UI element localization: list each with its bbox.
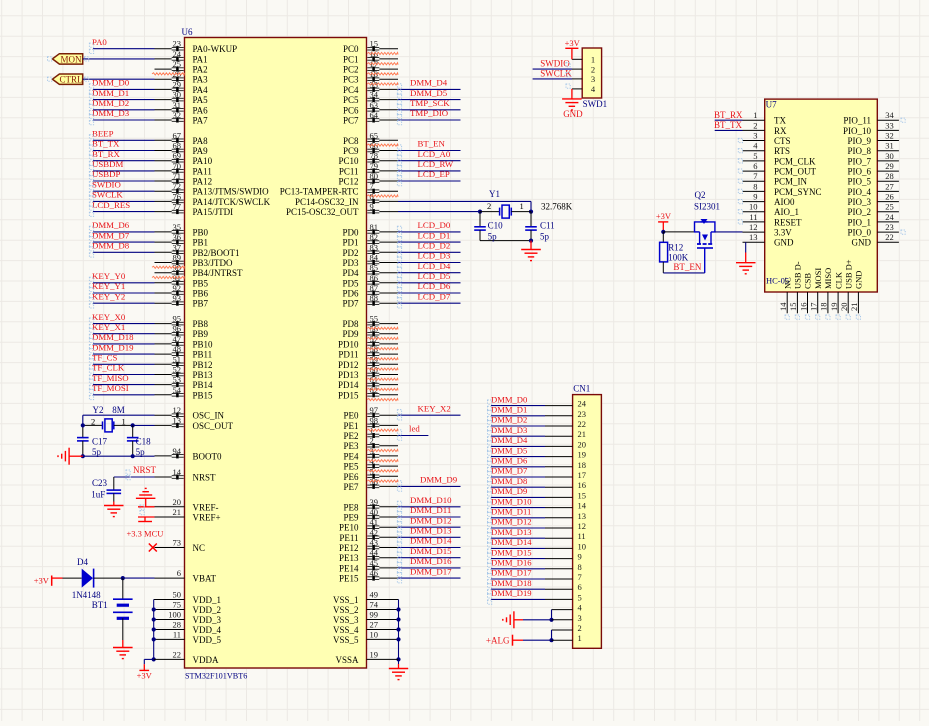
svg-text:1N4148: 1N4148 — [72, 590, 101, 600]
svg-text:+3V: +3V — [137, 671, 153, 681]
svg-text:95: 95 — [173, 314, 182, 324]
svg-text:R12: R12 — [668, 243, 683, 253]
svg-text:34: 34 — [370, 90, 379, 100]
svg-text:PIO_10: PIO_10 — [843, 126, 872, 136]
svg-text:76: 76 — [173, 191, 182, 201]
svg-text:PD3: PD3 — [342, 258, 359, 268]
svg-text:DMM_D10: DMM_D10 — [410, 495, 452, 505]
svg-text:65: 65 — [370, 130, 379, 140]
svg-text:17: 17 — [578, 470, 587, 480]
svg-text:LCD_D6: LCD_D6 — [418, 281, 451, 291]
svg-text:29: 29 — [885, 161, 894, 171]
svg-text:47: 47 — [173, 334, 182, 344]
svg-text:MISO: MISO — [823, 268, 833, 289]
svg-text:SI2301: SI2301 — [694, 202, 720, 212]
svg-text:67: 67 — [173, 130, 182, 140]
svg-text:10: 10 — [749, 202, 758, 212]
svg-text:AIO0: AIO0 — [774, 197, 795, 207]
svg-text:19: 19 — [370, 649, 379, 659]
svg-text:PIO_2: PIO_2 — [847, 207, 871, 217]
svg-text:PE9: PE9 — [343, 513, 359, 523]
svg-text:7: 7 — [370, 181, 374, 191]
svg-text:PC0: PC0 — [343, 44, 359, 54]
svg-text:DMM_D16: DMM_D16 — [410, 556, 452, 566]
svg-text:PE7: PE7 — [343, 482, 359, 492]
svg-text:53: 53 — [173, 375, 182, 385]
svg-text:DMM_D14: DMM_D14 — [491, 537, 532, 547]
svg-text:PB2/BOOT1: PB2/BOOT1 — [193, 248, 240, 258]
svg-text:DMM_D15: DMM_D15 — [491, 547, 532, 557]
svg-text:DMM_D13: DMM_D13 — [410, 526, 452, 536]
svg-text:LCD_D0: LCD_D0 — [418, 220, 451, 230]
svg-text:26: 26 — [885, 192, 894, 202]
svg-text:5p: 5p — [488, 232, 498, 242]
svg-text:45: 45 — [370, 558, 379, 568]
svg-text:BEEP: BEEP — [92, 129, 114, 139]
svg-text:24: 24 — [578, 399, 587, 409]
svg-text:AIO_1: AIO_1 — [774, 207, 799, 217]
svg-text:7: 7 — [578, 572, 582, 582]
svg-text:GND: GND — [563, 109, 583, 119]
svg-text:PE12: PE12 — [339, 543, 359, 553]
svg-text:LCD_D1: LCD_D1 — [418, 230, 451, 240]
svg-text:DMM_D1: DMM_D1 — [491, 405, 527, 415]
svg-text:DMM_D9: DMM_D9 — [491, 486, 527, 496]
svg-text:3: 3 — [591, 74, 595, 84]
svg-text:2: 2 — [487, 201, 491, 211]
svg-text:led: led — [409, 424, 420, 434]
svg-text:PE3: PE3 — [343, 441, 359, 451]
svg-text:41: 41 — [370, 517, 379, 527]
svg-text:DMM_D10: DMM_D10 — [491, 496, 532, 506]
svg-text:63: 63 — [370, 100, 379, 110]
svg-text:KEY_X1: KEY_X1 — [92, 322, 125, 332]
svg-text:15: 15 — [788, 303, 798, 312]
svg-text:97: 97 — [370, 405, 379, 415]
svg-text:PCM_SYNC: PCM_SYNC — [774, 187, 822, 197]
svg-text:6: 6 — [578, 582, 582, 592]
svg-text:25: 25 — [885, 202, 894, 212]
svg-text:CLK: CLK — [833, 271, 843, 289]
svg-text:PC7: PC7 — [343, 116, 359, 126]
svg-text:PIO_9: PIO_9 — [847, 136, 871, 146]
svg-text:DMM_D17: DMM_D17 — [491, 568, 532, 578]
svg-text:PD14: PD14 — [338, 380, 359, 390]
svg-text:15: 15 — [578, 490, 587, 500]
svg-text:13: 13 — [749, 232, 758, 242]
svg-text:OSC_IN: OSC_IN — [193, 411, 225, 421]
svg-text:PB11: PB11 — [193, 350, 213, 360]
svg-text:RTS: RTS — [774, 146, 790, 156]
svg-text:PD9: PD9 — [342, 329, 359, 339]
svg-text:DMM_D17: DMM_D17 — [410, 566, 452, 576]
svg-text:8: 8 — [753, 181, 757, 191]
svg-text:2: 2 — [753, 120, 757, 130]
svg-text:84: 84 — [370, 253, 379, 263]
svg-text:32.768K: 32.768K — [541, 202, 573, 212]
svg-text:PD0: PD0 — [342, 227, 359, 237]
svg-text:PIO_6: PIO_6 — [847, 167, 871, 177]
svg-text:DMM_D3: DMM_D3 — [92, 108, 130, 118]
svg-text:52: 52 — [173, 365, 182, 375]
svg-text:PD13: PD13 — [338, 370, 359, 380]
svg-text:19: 19 — [829, 303, 839, 312]
svg-text:DMM_D14: DMM_D14 — [410, 536, 452, 546]
svg-text:1: 1 — [753, 110, 757, 120]
svg-text:92: 92 — [173, 283, 182, 293]
svg-text:82: 82 — [370, 232, 379, 242]
svg-text:71: 71 — [173, 171, 182, 181]
svg-text:PA4: PA4 — [193, 85, 209, 95]
svg-text:42: 42 — [370, 527, 379, 537]
svg-text:13: 13 — [578, 511, 587, 521]
svg-text:BT_EN: BT_EN — [673, 262, 701, 272]
svg-text:VDD_3: VDD_3 — [193, 615, 222, 625]
svg-text:DMM_D7: DMM_D7 — [491, 466, 528, 476]
svg-text:68: 68 — [173, 141, 182, 151]
svg-text:1: 1 — [520, 201, 524, 211]
svg-text:BT1: BT1 — [92, 600, 108, 610]
svg-text:22: 22 — [173, 649, 182, 659]
svg-text:Q2: Q2 — [695, 190, 706, 200]
svg-text:NRST: NRST — [133, 465, 157, 475]
svg-text:PC6: PC6 — [343, 105, 359, 115]
svg-text:9: 9 — [578, 552, 582, 562]
svg-text:VDD_2: VDD_2 — [193, 605, 222, 615]
svg-text:KEY_Y2: KEY_Y2 — [92, 291, 125, 301]
svg-text:LCD_D7: LCD_D7 — [418, 291, 451, 301]
svg-text:20: 20 — [839, 303, 849, 312]
svg-text:PD11: PD11 — [338, 350, 358, 360]
svg-text:PA9: PA9 — [193, 146, 209, 156]
svg-text:PA1: PA1 — [193, 54, 208, 64]
svg-text:PE11: PE11 — [339, 533, 358, 543]
svg-text:D4: D4 — [77, 557, 88, 567]
svg-text:+3V: +3V — [656, 211, 672, 221]
svg-text:27: 27 — [885, 181, 894, 191]
svg-text:43: 43 — [370, 538, 379, 548]
svg-text:86: 86 — [370, 273, 379, 283]
svg-text:2: 2 — [91, 416, 95, 426]
svg-text:SWCLK: SWCLK — [92, 190, 123, 200]
svg-text:+3V: +3V — [34, 576, 50, 586]
svg-text:18: 18 — [578, 460, 587, 470]
svg-text:3: 3 — [578, 613, 582, 623]
svg-text:PE5: PE5 — [343, 462, 359, 472]
svg-text:83: 83 — [370, 242, 379, 252]
svg-text:8M: 8M — [112, 405, 125, 415]
svg-text:VSSA: VSSA — [335, 655, 359, 665]
svg-text:PIO_11: PIO_11 — [843, 116, 871, 126]
svg-text:LCD_D3: LCD_D3 — [418, 251, 451, 261]
svg-text:NC: NC — [782, 277, 792, 289]
svg-text:PA7: PA7 — [193, 116, 209, 126]
svg-text:23: 23 — [885, 222, 894, 232]
svg-text:PIO_3: PIO_3 — [847, 197, 871, 207]
svg-text:PC11: PC11 — [339, 166, 359, 176]
svg-text:USB D-: USB D- — [793, 261, 803, 289]
svg-text:PB5: PB5 — [193, 278, 209, 288]
svg-text:NRST: NRST — [193, 473, 217, 483]
svg-text:2: 2 — [578, 623, 582, 633]
svg-text:PB0: PB0 — [193, 227, 209, 237]
svg-text:DMM_D16: DMM_D16 — [491, 558, 532, 568]
svg-text:TF_MOSI: TF_MOSI — [92, 383, 129, 393]
svg-text:PA3: PA3 — [193, 75, 209, 85]
svg-text:BT_EN: BT_EN — [418, 139, 446, 149]
svg-text:54: 54 — [173, 385, 182, 395]
svg-text:2: 2 — [370, 436, 374, 446]
svg-text:BT_TX: BT_TX — [714, 120, 742, 130]
svg-text:PC10: PC10 — [338, 156, 359, 166]
svg-text:32: 32 — [173, 110, 182, 120]
svg-text:VSS_2: VSS_2 — [333, 605, 359, 615]
svg-text:CTS: CTS — [774, 136, 791, 146]
svg-text:TMP_DIO: TMP_DIO — [410, 108, 448, 118]
svg-text:SWDIO: SWDIO — [92, 179, 121, 189]
svg-text:DMM_D2: DMM_D2 — [92, 98, 129, 108]
svg-text:17: 17 — [809, 303, 819, 312]
svg-text:21: 21 — [849, 303, 859, 312]
svg-text:PA6: PA6 — [193, 105, 209, 115]
svg-text:PC2: PC2 — [343, 65, 359, 75]
svg-text:64: 64 — [370, 110, 379, 120]
svg-text:VSS_4: VSS_4 — [333, 625, 359, 635]
svg-text:21: 21 — [173, 507, 182, 517]
svg-text:1uF: 1uF — [91, 490, 105, 500]
svg-text:24: 24 — [173, 49, 182, 59]
svg-text:28: 28 — [173, 620, 182, 630]
svg-text:1: 1 — [591, 55, 595, 65]
svg-text:7: 7 — [753, 171, 757, 181]
svg-text:25: 25 — [173, 59, 182, 69]
svg-text:20: 20 — [173, 497, 182, 507]
svg-text:PIO_0: PIO_0 — [847, 228, 871, 238]
svg-text:29: 29 — [173, 79, 182, 89]
svg-text:VSS_3: VSS_3 — [333, 615, 359, 625]
svg-text:TF_CS: TF_CS — [92, 353, 118, 363]
svg-text:MON: MON — [60, 54, 82, 64]
svg-text:PA15/JTDI: PA15/JTDI — [193, 207, 234, 217]
svg-text:2: 2 — [591, 64, 595, 74]
svg-text:TF_CLK: TF_CLK — [92, 363, 125, 373]
svg-text:KEY_Y1: KEY_Y1 — [92, 281, 125, 291]
svg-text:44: 44 — [370, 548, 379, 558]
svg-text:PB7: PB7 — [193, 299, 209, 309]
svg-text:RESET: RESET — [774, 217, 802, 227]
svg-text:DMM_D4: DMM_D4 — [491, 435, 528, 445]
svg-text:LCD_D4: LCD_D4 — [418, 261, 451, 271]
svg-text:PC1: PC1 — [343, 54, 359, 64]
svg-text:PD2: PD2 — [342, 248, 358, 258]
svg-text:+3V: +3V — [565, 38, 581, 48]
svg-text:13: 13 — [173, 415, 182, 425]
svg-text:DMM_D2: DMM_D2 — [491, 415, 527, 425]
svg-text:75: 75 — [173, 600, 182, 610]
svg-text:KEY_X0: KEY_X0 — [92, 312, 126, 322]
svg-text:VBAT: VBAT — [193, 574, 217, 584]
svg-text:DMM_D19: DMM_D19 — [92, 342, 134, 352]
svg-text:46: 46 — [370, 568, 379, 578]
svg-text:PE14: PE14 — [339, 563, 359, 573]
svg-text:70: 70 — [173, 161, 182, 171]
svg-text:19: 19 — [578, 450, 587, 460]
svg-text:PD15: PD15 — [338, 390, 359, 400]
svg-text:PC13-TAMPER-RTC: PC13-TAMPER-RTC — [280, 187, 359, 197]
svg-text:PB8: PB8 — [193, 319, 209, 329]
svg-text:79: 79 — [370, 161, 379, 171]
svg-text:5: 5 — [578, 592, 582, 602]
svg-text:PIO_8: PIO_8 — [847, 146, 871, 156]
svg-text:DMM_D18: DMM_D18 — [491, 578, 532, 588]
svg-text:14: 14 — [173, 467, 182, 477]
svg-text:CN1: CN1 — [573, 384, 590, 394]
svg-text:BT_TX: BT_TX — [92, 139, 120, 149]
svg-text:VREF-: VREF- — [193, 502, 219, 512]
svg-text:PCM_IN: PCM_IN — [774, 177, 808, 187]
svg-text:9: 9 — [370, 202, 374, 212]
svg-text:51: 51 — [173, 354, 182, 364]
svg-text:LCD_A0: LCD_A0 — [418, 149, 451, 159]
svg-text:31: 31 — [173, 100, 182, 110]
svg-text:SWD1: SWD1 — [583, 99, 608, 109]
svg-text:C10: C10 — [488, 221, 504, 231]
svg-text:Y1: Y1 — [489, 189, 500, 199]
svg-text:PB9: PB9 — [193, 329, 209, 339]
svg-text:1: 1 — [122, 416, 126, 426]
svg-text:DMM_D7: DMM_D7 — [92, 230, 130, 240]
svg-text:31: 31 — [885, 141, 894, 151]
svg-text:PD1: PD1 — [342, 238, 358, 248]
svg-text:DMM_D13: DMM_D13 — [491, 527, 532, 537]
svg-text:93: 93 — [173, 293, 182, 303]
svg-text:PE1: PE1 — [343, 421, 358, 431]
svg-text:DMM_D0: DMM_D0 — [491, 394, 527, 404]
svg-text:14: 14 — [778, 302, 788, 311]
svg-text:100: 100 — [168, 610, 181, 620]
svg-text:VDD_1: VDD_1 — [193, 595, 222, 605]
svg-text:15: 15 — [370, 39, 379, 49]
svg-text:5: 5 — [753, 151, 757, 161]
svg-text:14: 14 — [578, 501, 587, 511]
svg-text:PA12: PA12 — [193, 177, 213, 187]
svg-text:BT_RX: BT_RX — [714, 110, 743, 120]
svg-text:11: 11 — [749, 212, 757, 222]
svg-text:PE4: PE4 — [343, 451, 359, 461]
svg-text:C23: C23 — [92, 478, 108, 488]
svg-text:49: 49 — [370, 590, 379, 600]
svg-text:94: 94 — [173, 446, 182, 456]
svg-text:22: 22 — [885, 232, 894, 242]
svg-text:16: 16 — [798, 303, 808, 312]
svg-text:C11: C11 — [540, 221, 555, 231]
svg-text:DMM_D8: DMM_D8 — [92, 241, 130, 251]
svg-text:12: 12 — [173, 405, 182, 415]
svg-text:12: 12 — [578, 521, 587, 531]
svg-text:32: 32 — [885, 131, 894, 141]
svg-text:PD6: PD6 — [342, 289, 359, 299]
svg-text:PB4/JNTRST: PB4/JNTRST — [193, 268, 244, 278]
svg-text:DMM_D18: DMM_D18 — [92, 332, 134, 342]
svg-text:PIO_1: PIO_1 — [847, 217, 871, 227]
svg-text:PD4: PD4 — [342, 268, 359, 278]
svg-text:23: 23 — [173, 39, 182, 49]
svg-text:DMM_D12: DMM_D12 — [410, 515, 452, 525]
svg-text:CTRL: CTRL — [59, 75, 82, 85]
svg-text:88: 88 — [370, 293, 379, 303]
svg-text:37: 37 — [173, 242, 182, 252]
svg-text:DMM_D4: DMM_D4 — [410, 78, 448, 88]
svg-text:81: 81 — [370, 222, 379, 232]
svg-text:35: 35 — [173, 222, 182, 232]
svg-text:U6: U6 — [182, 27, 193, 37]
svg-text:LCD_RES: LCD_RES — [92, 200, 130, 210]
svg-text:DMM_D11: DMM_D11 — [491, 507, 531, 517]
svg-text:50: 50 — [173, 590, 182, 600]
svg-text:69: 69 — [173, 151, 182, 161]
svg-text:VSS_5: VSS_5 — [333, 635, 359, 645]
svg-text:74: 74 — [370, 600, 379, 610]
svg-text:PB1: PB1 — [193, 238, 209, 248]
svg-text:80: 80 — [370, 171, 379, 181]
svg-text:DMM_D15: DMM_D15 — [410, 546, 452, 556]
svg-text:20: 20 — [578, 439, 587, 449]
svg-text:PD8: PD8 — [342, 319, 359, 329]
svg-text:10: 10 — [578, 541, 587, 551]
svg-text:KEY_X2: KEY_X2 — [418, 403, 451, 413]
svg-text:23: 23 — [578, 409, 587, 419]
svg-text:85: 85 — [370, 263, 379, 273]
svg-text:PC8: PC8 — [343, 136, 359, 146]
svg-text:DMM_D12: DMM_D12 — [491, 517, 532, 527]
svg-text:PE8: PE8 — [343, 502, 359, 512]
svg-text:VDD_4: VDD_4 — [193, 625, 222, 635]
svg-text:PA0: PA0 — [92, 37, 107, 47]
svg-text:PIO_5: PIO_5 — [847, 177, 871, 187]
svg-text:72: 72 — [173, 181, 182, 191]
svg-text:LCD_RW: LCD_RW — [418, 159, 454, 169]
svg-text:PD5: PD5 — [342, 278, 359, 288]
svg-text:DMM_D1: DMM_D1 — [92, 88, 129, 98]
svg-text:DMM_D8: DMM_D8 — [491, 476, 527, 486]
svg-text:48: 48 — [173, 344, 182, 354]
svg-text:PIO_7: PIO_7 — [847, 156, 871, 166]
svg-text:PCM_OUT: PCM_OUT — [774, 167, 817, 177]
svg-text:78: 78 — [370, 151, 379, 161]
svg-text:PE15: PE15 — [339, 574, 359, 584]
svg-text:VDD_5: VDD_5 — [193, 635, 222, 645]
svg-text:87: 87 — [370, 283, 379, 293]
svg-text:PC3: PC3 — [343, 75, 359, 85]
svg-text:12: 12 — [749, 222, 758, 232]
svg-text:PE6: PE6 — [343, 472, 359, 482]
svg-text:89: 89 — [173, 253, 182, 263]
svg-text:28: 28 — [885, 171, 894, 181]
svg-text:C18: C18 — [136, 436, 152, 446]
svg-text:TMP_SCK: TMP_SCK — [410, 98, 450, 108]
svg-text:BOOT0: BOOT0 — [193, 451, 222, 461]
svg-text:DMM_D11: DMM_D11 — [410, 505, 451, 515]
svg-text:USBDP: USBDP — [92, 169, 120, 179]
svg-text:40: 40 — [370, 507, 379, 517]
svg-text:11: 11 — [578, 531, 586, 541]
svg-text:5p: 5p — [92, 447, 102, 457]
svg-text:CSB: CSB — [803, 273, 813, 289]
svg-text:PA11: PA11 — [193, 166, 212, 176]
svg-text:16: 16 — [578, 480, 587, 490]
svg-text:PC14-OSC32_IN: PC14-OSC32_IN — [295, 197, 359, 207]
svg-text:PD7: PD7 — [342, 299, 359, 309]
